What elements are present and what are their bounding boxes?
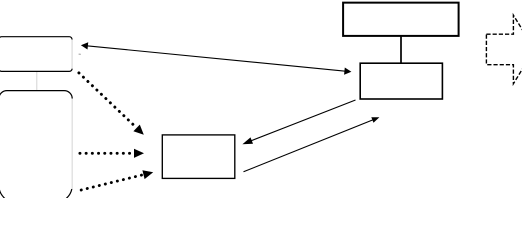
solid arrow A (box B to box C) xyxy=(242,100,355,144)
rounded box 1 (top-left, clipped at left edge) xyxy=(0,37,72,72)
dotted arrow 3 (box2 to box C) xyxy=(81,170,153,190)
solid arrow B (box C to box B) xyxy=(244,117,380,172)
box C (middle-bottom) xyxy=(162,135,235,179)
rounded box 2 right edge (faint) xyxy=(71,99,73,189)
box A (top-right) xyxy=(343,3,459,36)
box B (right, below box A) xyxy=(360,63,442,99)
stray faint dash xyxy=(79,53,81,55)
connector wire (faint, box1 to box2) xyxy=(36,72,38,90)
rounded box 1 right edge (faint) xyxy=(71,40,73,69)
rounded box 2 (large, clipped at left and bottom) xyxy=(0,91,72,203)
dotted arrow 1 (box1 to box C) xyxy=(79,73,144,135)
dotted arrow 2 (box2 to box C) xyxy=(80,149,144,158)
connector wire (box A to box B) xyxy=(400,36,402,64)
double-headed arrow (box1 to box B) xyxy=(81,42,352,74)
dashed block arrow (right, clipped) xyxy=(486,15,522,84)
